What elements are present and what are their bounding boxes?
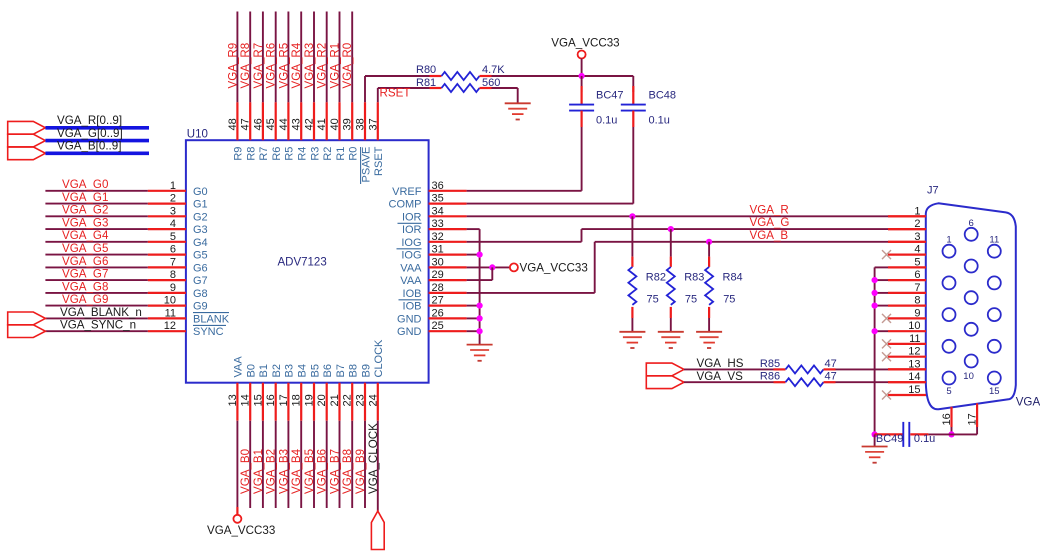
- svg-text:R8: R8: [246, 147, 258, 161]
- svg-text:R2: R2: [322, 147, 334, 161]
- svg-text:29: 29: [432, 269, 444, 281]
- svg-text:RSET: RSET: [373, 146, 385, 176]
- svg-text:SYNC: SYNC: [193, 326, 224, 338]
- svg-text:2: 2: [914, 218, 920, 230]
- svg-text:6: 6: [170, 244, 176, 256]
- svg-text:19: 19: [304, 394, 316, 406]
- svg-text:2: 2: [170, 193, 176, 205]
- svg-text:75: 75: [685, 294, 697, 306]
- svg-text:9: 9: [914, 307, 920, 319]
- svg-text:G6: G6: [193, 262, 208, 274]
- svg-text:VGA_R6: VGA_R6: [265, 43, 278, 89]
- svg-text:48: 48: [227, 118, 239, 130]
- svg-text:34: 34: [432, 205, 444, 217]
- svg-text:46: 46: [252, 118, 264, 130]
- svg-text:24: 24: [367, 394, 379, 406]
- svg-text:VGA_G1: VGA_G1: [62, 191, 108, 204]
- svg-text:BLANK: BLANK: [193, 313, 230, 325]
- svg-text:B6: B6: [322, 364, 334, 377]
- svg-text:J7: J7: [927, 185, 939, 197]
- svg-text:R81: R81: [416, 77, 436, 89]
- svg-text:16: 16: [941, 413, 953, 425]
- svg-text:IOR: IOR: [402, 211, 422, 223]
- svg-text:VGA_R4: VGA_R4: [290, 42, 303, 88]
- svg-text:20: 20: [316, 394, 328, 406]
- svg-text:VGA_G[0..9]: VGA_G[0..9]: [57, 127, 123, 140]
- svg-text:8: 8: [170, 269, 176, 281]
- svg-text:47: 47: [825, 358, 837, 370]
- svg-text:0.1u: 0.1u: [596, 115, 617, 127]
- svg-text:26: 26: [432, 307, 444, 319]
- svg-text:11: 11: [909, 333, 920, 345]
- svg-text:15: 15: [989, 386, 1000, 397]
- svg-text:VGA_B: VGA_B: [750, 229, 789, 242]
- svg-text:36: 36: [432, 180, 444, 192]
- svg-text:IOB: IOB: [403, 288, 422, 300]
- svg-text:VGA_VCC33: VGA_VCC33: [207, 524, 275, 537]
- svg-text:1: 1: [914, 205, 920, 217]
- svg-text:10: 10: [908, 320, 920, 332]
- svg-text:30: 30: [432, 256, 444, 268]
- svg-text:VGA_B[0..9]: VGA_B[0..9]: [57, 140, 121, 153]
- svg-text:R3: R3: [309, 147, 321, 161]
- svg-text:VAA: VAA: [400, 275, 422, 287]
- svg-text:21: 21: [329, 394, 341, 406]
- svg-text:14: 14: [240, 394, 252, 406]
- svg-text:R5: R5: [284, 147, 296, 161]
- svg-text:0.1u: 0.1u: [914, 433, 935, 445]
- svg-text:VGA_B8: VGA_B8: [341, 449, 354, 494]
- svg-text:75: 75: [723, 294, 735, 306]
- svg-text:B9: B9: [360, 364, 372, 377]
- svg-text:VGA_R2: VGA_R2: [316, 43, 329, 89]
- svg-text:VGA_R[0..9]: VGA_R[0..9]: [57, 114, 122, 127]
- svg-text:B1: B1: [258, 364, 270, 377]
- svg-text:9: 9: [170, 282, 176, 294]
- svg-text:0.1u: 0.1u: [649, 115, 670, 127]
- svg-text:VGA: VGA: [1016, 396, 1040, 409]
- svg-text:43: 43: [291, 118, 303, 130]
- svg-text:4: 4: [914, 244, 920, 256]
- svg-text:47: 47: [240, 118, 252, 130]
- svg-text:13: 13: [227, 394, 239, 406]
- svg-text:47: 47: [825, 371, 837, 383]
- svg-text:VGA_BLANK_n: VGA_BLANK_n: [60, 306, 142, 319]
- svg-text:15: 15: [908, 384, 920, 396]
- svg-text:PSAVE: PSAVE: [360, 147, 372, 183]
- svg-text:VGA_G4: VGA_G4: [62, 229, 109, 242]
- svg-text:G9: G9: [193, 301, 208, 313]
- svg-text:18: 18: [291, 394, 303, 406]
- svg-text:R84: R84: [723, 271, 743, 283]
- svg-text:VGA_R5: VGA_R5: [277, 43, 290, 89]
- svg-text:7: 7: [170, 256, 176, 268]
- svg-text:11: 11: [989, 235, 999, 246]
- svg-text:560: 560: [482, 77, 500, 89]
- svg-text:VGA_G9: VGA_G9: [62, 293, 108, 306]
- svg-text:R9: R9: [233, 147, 245, 161]
- svg-text:22: 22: [342, 394, 354, 406]
- svg-text:IOG: IOG: [401, 237, 421, 249]
- svg-text:ADV7123: ADV7123: [278, 257, 327, 269]
- svg-text:VGA_SYNC_n: VGA_SYNC_n: [60, 319, 136, 332]
- svg-text:R1: R1: [335, 147, 347, 161]
- svg-text:R80: R80: [416, 64, 436, 76]
- svg-text:BC47: BC47: [596, 89, 624, 101]
- svg-text:VGA_G5: VGA_G5: [62, 242, 108, 255]
- svg-text:CLOCK: CLOCK: [373, 339, 385, 378]
- svg-text:VGA_R8: VGA_R8: [239, 43, 252, 89]
- svg-text:27: 27: [432, 295, 444, 307]
- svg-text:G4: G4: [193, 237, 208, 249]
- svg-text:GND: GND: [397, 326, 422, 338]
- svg-text:VGA_B7: VGA_B7: [329, 449, 342, 494]
- svg-text:32: 32: [432, 231, 444, 243]
- svg-text:5: 5: [170, 231, 176, 243]
- svg-text:12: 12: [164, 320, 176, 332]
- svg-text:VGA_R7: VGA_R7: [252, 43, 265, 89]
- svg-text:VGA_G7: VGA_G7: [62, 268, 108, 281]
- svg-text:G3: G3: [193, 224, 208, 236]
- svg-text:R83: R83: [684, 271, 704, 283]
- svg-text:B0: B0: [246, 364, 258, 377]
- svg-text:4: 4: [170, 218, 176, 230]
- svg-text:BC48: BC48: [649, 89, 677, 101]
- svg-text:41: 41: [316, 118, 328, 130]
- svg-text:R86: R86: [760, 371, 780, 383]
- svg-text:75: 75: [647, 294, 659, 306]
- svg-text:R85: R85: [760, 358, 780, 370]
- svg-text:37: 37: [367, 118, 379, 130]
- svg-text:IOG: IOG: [401, 250, 421, 262]
- svg-text:R7: R7: [258, 147, 270, 161]
- svg-text:25: 25: [432, 320, 444, 332]
- svg-text:G2: G2: [193, 211, 208, 223]
- svg-text:G5: G5: [193, 250, 208, 262]
- svg-text:5: 5: [914, 256, 920, 268]
- svg-text:RSET: RSET: [380, 87, 411, 100]
- svg-text:VGA_B5: VGA_B5: [303, 449, 316, 494]
- svg-text:R6: R6: [271, 147, 283, 161]
- svg-text:B5: B5: [309, 364, 321, 377]
- svg-text:1: 1: [170, 180, 176, 192]
- svg-text:7: 7: [914, 282, 920, 294]
- svg-text:B3: B3: [284, 364, 296, 377]
- svg-text:VGA_VCC33: VGA_VCC33: [551, 37, 619, 50]
- svg-text:42: 42: [304, 118, 316, 130]
- svg-text:B2: B2: [271, 364, 283, 377]
- svg-text:B8: B8: [348, 364, 360, 377]
- svg-text:11: 11: [165, 307, 176, 319]
- svg-text:VGA_R: VGA_R: [750, 203, 789, 216]
- svg-text:R4: R4: [297, 147, 309, 161]
- svg-text:17: 17: [278, 394, 290, 406]
- svg-text:VGA_G3: VGA_G3: [62, 217, 108, 230]
- svg-text:35: 35: [432, 193, 444, 205]
- svg-text:BC49: BC49: [876, 433, 904, 445]
- svg-text:R82: R82: [646, 271, 666, 283]
- svg-text:44: 44: [278, 118, 290, 130]
- svg-text:3: 3: [914, 231, 920, 243]
- svg-text:VGA_G2: VGA_G2: [62, 204, 108, 217]
- svg-text:G8: G8: [193, 288, 208, 300]
- svg-text:10: 10: [164, 295, 176, 307]
- svg-text:28: 28: [432, 282, 444, 294]
- svg-text:VGA_B9: VGA_B9: [354, 449, 367, 494]
- svg-text:G0: G0: [193, 186, 208, 198]
- svg-text:VGA_VCC33: VGA_VCC33: [520, 262, 588, 275]
- svg-text:38: 38: [355, 118, 367, 130]
- svg-text:12: 12: [908, 346, 920, 358]
- svg-text:5: 5: [946, 386, 951, 397]
- svg-text:VAA: VAA: [233, 356, 245, 378]
- svg-text:COMP: COMP: [389, 199, 422, 211]
- svg-text:14: 14: [908, 371, 920, 383]
- svg-text:15: 15: [252, 394, 264, 406]
- svg-text:VGA_B1: VGA_B1: [252, 449, 265, 494]
- svg-text:VGA_VS: VGA_VS: [697, 370, 744, 383]
- svg-text:B7: B7: [335, 364, 347, 377]
- svg-text:39: 39: [342, 118, 354, 130]
- svg-text:13: 13: [908, 358, 920, 370]
- svg-text:3: 3: [170, 205, 176, 217]
- svg-text:VGA_B4: VGA_B4: [290, 448, 303, 494]
- svg-text:VGA_R9: VGA_R9: [226, 43, 239, 89]
- svg-text:B4: B4: [297, 364, 309, 377]
- svg-text:VGA_B2: VGA_B2: [265, 449, 278, 494]
- svg-text:VGA_G6: VGA_G6: [62, 255, 108, 268]
- svg-text:VAA: VAA: [400, 262, 422, 274]
- svg-text:IOB: IOB: [403, 301, 422, 313]
- svg-text:33: 33: [432, 218, 444, 230]
- svg-text:8: 8: [914, 295, 920, 307]
- svg-text:VGA_CLOCK: VGA_CLOCK: [367, 423, 380, 494]
- svg-text:6: 6: [914, 269, 920, 281]
- svg-text:VREF: VREF: [392, 186, 422, 198]
- svg-text:10: 10: [963, 371, 974, 382]
- svg-text:R0: R0: [348, 147, 360, 161]
- svg-text:IOR: IOR: [402, 224, 422, 236]
- svg-text:GND: GND: [397, 313, 422, 325]
- svg-text:VGA_G8: VGA_G8: [62, 280, 108, 293]
- svg-text:VGA_G0: VGA_G0: [62, 178, 108, 191]
- svg-text:23: 23: [355, 394, 367, 406]
- svg-text:31: 31: [432, 244, 444, 256]
- svg-text:G1: G1: [193, 199, 208, 211]
- svg-text:40: 40: [329, 118, 341, 130]
- svg-text:G7: G7: [193, 275, 208, 287]
- svg-text:VGA_B3: VGA_B3: [277, 449, 290, 494]
- svg-text:VGA_B0: VGA_B0: [239, 449, 252, 494]
- svg-text:VGA_B6: VGA_B6: [316, 449, 329, 494]
- svg-text:4.7K: 4.7K: [482, 64, 505, 76]
- svg-text:VGA_R1: VGA_R1: [329, 43, 342, 89]
- svg-text:17: 17: [967, 413, 979, 425]
- svg-text:U10: U10: [187, 129, 208, 141]
- svg-text:VGA_R0: VGA_R0: [341, 43, 354, 89]
- svg-text:6: 6: [969, 218, 974, 229]
- svg-text:VGA_HS: VGA_HS: [697, 357, 744, 370]
- svg-text:1: 1: [946, 235, 951, 246]
- svg-text:VGA_R3: VGA_R3: [303, 43, 316, 89]
- svg-text:16: 16: [265, 394, 277, 406]
- svg-text:VGA_G: VGA_G: [750, 216, 790, 229]
- svg-text:45: 45: [265, 118, 277, 130]
